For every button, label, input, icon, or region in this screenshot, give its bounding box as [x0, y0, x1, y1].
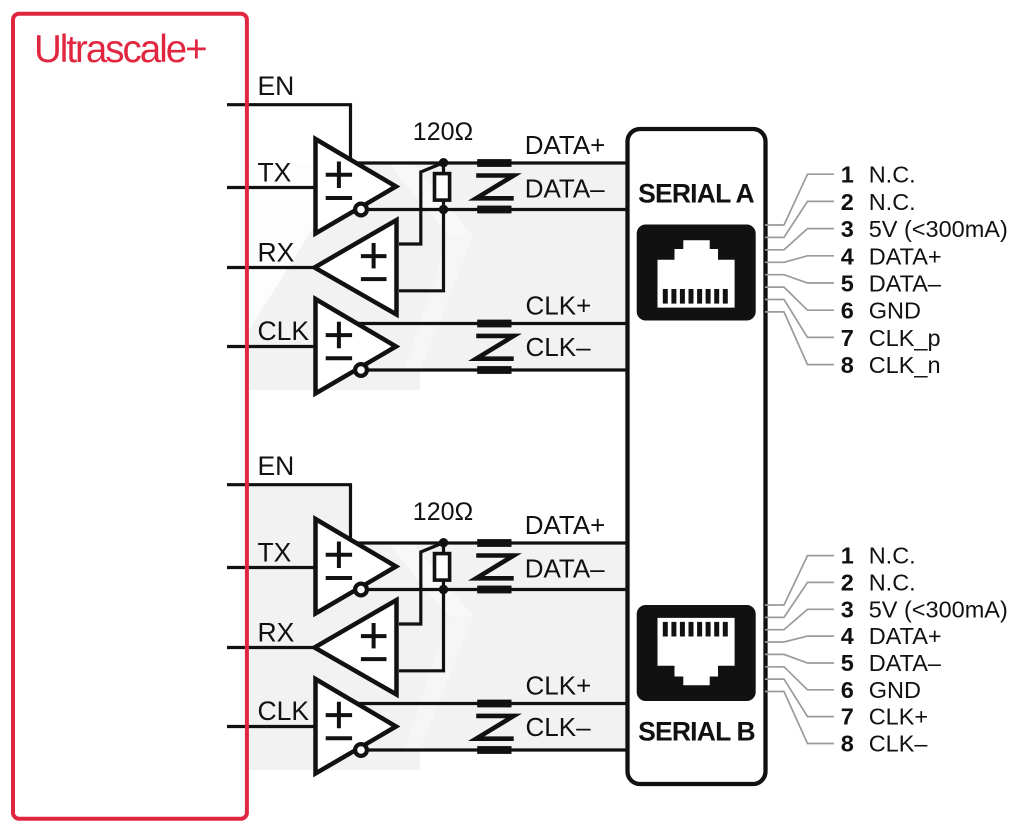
svg-text:N.C.: N.C.	[869, 543, 916, 569]
svg-text:120Ω: 120Ω	[413, 118, 473, 146]
svg-text:RX: RX	[258, 618, 295, 648]
svg-text:DATA–: DATA–	[869, 271, 942, 297]
svg-text:8: 8	[841, 731, 854, 757]
svg-text:4: 4	[841, 243, 854, 269]
svg-text:N.C.: N.C.	[869, 189, 916, 215]
svg-text:3: 3	[841, 216, 854, 242]
svg-text:DATA–: DATA–	[525, 554, 605, 584]
svg-text:5V (<300mA): 5V (<300mA)	[869, 596, 1008, 622]
svg-text:CLK–: CLK–	[526, 332, 592, 362]
svg-text:SERIAL B: SERIAL B	[638, 717, 755, 747]
svg-text:Ultrascale+: Ultrascale+	[34, 28, 206, 71]
svg-text:TX: TX	[258, 158, 292, 188]
svg-text:CLK+: CLK+	[526, 671, 592, 701]
svg-text:N.C.: N.C.	[869, 570, 916, 596]
svg-text:DATA+: DATA+	[869, 243, 942, 269]
svg-text:SERIAL A: SERIAL A	[638, 179, 754, 209]
svg-text:RX: RX	[258, 238, 295, 268]
svg-text:CLK–: CLK–	[869, 731, 929, 757]
svg-text:2: 2	[841, 189, 854, 215]
svg-text:DATA+: DATA+	[869, 623, 942, 649]
svg-text:DATA+: DATA+	[525, 510, 606, 540]
svg-text:GND: GND	[869, 677, 921, 703]
svg-text:8: 8	[841, 352, 854, 378]
svg-text:120Ω: 120Ω	[413, 498, 473, 526]
svg-text:CLK+: CLK+	[526, 291, 592, 321]
svg-text:DATA+: DATA+	[525, 130, 606, 160]
svg-text:7: 7	[841, 325, 854, 351]
svg-text:5V (<300mA): 5V (<300mA)	[869, 216, 1008, 242]
svg-text:EN: EN	[258, 71, 295, 101]
svg-text:1: 1	[841, 162, 854, 188]
svg-text:CLK_p: CLK_p	[869, 325, 941, 351]
svg-text:GND: GND	[869, 298, 921, 324]
svg-text:CLK: CLK	[258, 696, 310, 726]
svg-text:6: 6	[841, 677, 854, 703]
svg-text:CLK_n: CLK_n	[869, 352, 941, 378]
svg-text:6: 6	[841, 298, 854, 324]
svg-text:7: 7	[841, 704, 854, 730]
svg-text:N.C.: N.C.	[869, 162, 916, 188]
svg-text:CLK: CLK	[258, 316, 310, 346]
svg-text:CLK–: CLK–	[526, 712, 592, 742]
svg-text:4: 4	[841, 623, 854, 649]
svg-text:3: 3	[841, 596, 854, 622]
svg-text:EN: EN	[258, 451, 295, 481]
svg-text:5: 5	[841, 650, 854, 676]
svg-text:CLK+: CLK+	[869, 704, 928, 730]
svg-text:DATA–: DATA–	[525, 174, 605, 204]
svg-text:TX: TX	[258, 538, 292, 568]
svg-text:DATA–: DATA–	[869, 650, 942, 676]
svg-text:5: 5	[841, 271, 854, 297]
svg-text:1: 1	[841, 543, 854, 569]
svg-text:2: 2	[841, 570, 854, 596]
